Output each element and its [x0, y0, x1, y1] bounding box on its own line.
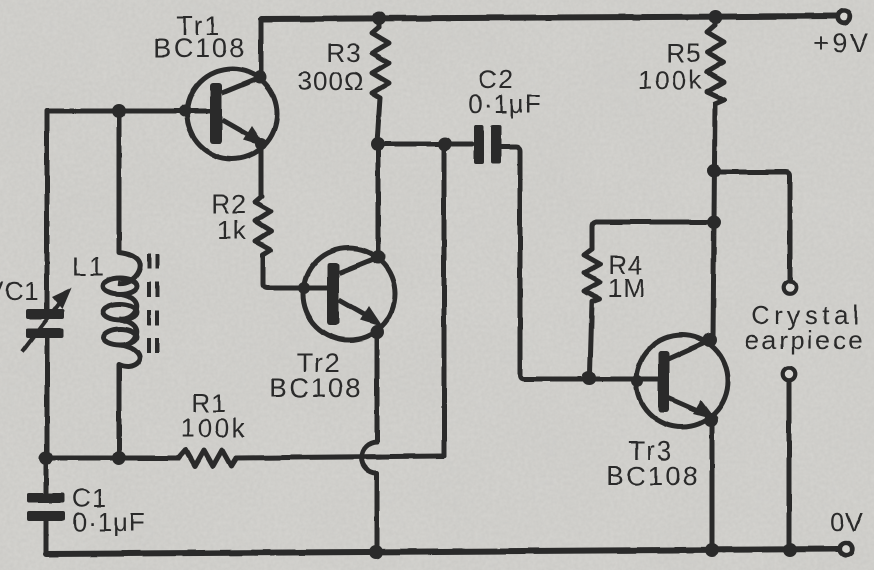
- wire C1 top lead: [44, 458, 49, 493]
- resistor R2: [255, 196, 271, 255]
- wire L1 bottom: [117, 365, 122, 458]
- svg-text:0·1μF: 0·1μF: [72, 507, 145, 537]
- wire C1 bottom lead: [44, 521, 49, 554]
- wire L1 top: [117, 111, 122, 252]
- wire bottom node horizontal left of R1: [46, 456, 179, 461]
- wire Tr3 emitter to 0V: [710, 424, 715, 550]
- terminal earpiece top: [784, 281, 797, 294]
- wire Tr2 collector riser: [376, 144, 381, 257]
- terminal earpiece bottom: [783, 368, 796, 381]
- svg-text:R5: R5: [666, 38, 701, 68]
- terminal +9V: [838, 11, 851, 24]
- wire R4 top branch: [592, 222, 715, 249]
- transistor Tr3: [631, 333, 728, 427]
- node earpiece tap: [707, 164, 721, 178]
- inductor L1: [103, 252, 140, 367]
- node R4 bottom / Tr3 base: [582, 371, 596, 385]
- transistor Tr2: [298, 248, 395, 340]
- svg-text:earpiece: earpiece: [745, 325, 866, 355]
- node top rail R5 junction: [709, 10, 723, 24]
- wire R4 bottom lead: [590, 302, 592, 374]
- wire hop over node wire: [362, 442, 378, 473]
- svg-text:+9V: +9V: [813, 28, 871, 58]
- svg-text:100k: 100k: [638, 65, 704, 95]
- node earpiece 0V: [783, 543, 797, 557]
- transistor Tr1: [179, 69, 277, 159]
- L1 core dashed lines: [149, 254, 157, 358]
- svg-text:BC108: BC108: [153, 33, 247, 63]
- wire Tr1 emitter to R2: [259, 147, 264, 196]
- svg-text:1M: 1M: [608, 273, 646, 303]
- capacitor C2: [474, 125, 501, 164]
- resistor R1: [179, 450, 236, 466]
- resistor R5: [707, 25, 724, 104]
- wire R2 bottom to Tr2 base: [263, 255, 328, 288]
- svg-text:VC1: VC1: [0, 276, 40, 306]
- VC1 arrow: [22, 288, 71, 352]
- node C2 left riser: [438, 137, 452, 151]
- resistor R3: [372, 27, 389, 98]
- wire R1 right to vertical riser: [236, 456, 444, 458]
- wire VC1 bottom to node: [45, 338, 50, 458]
- wire +9V top rail: [261, 16, 838, 19]
- capacitor C1: [27, 493, 65, 521]
- svg-text:BC108: BC108: [269, 373, 363, 403]
- wire Tr1 collector to top rail: [259, 19, 264, 77]
- wire earpiece lower to 0V: [787, 382, 792, 550]
- wire Tr2 emitter lower to 0V: [375, 473, 380, 551]
- wire Tr2 emitter upper: [375, 334, 380, 442]
- resistor R4: [584, 249, 600, 302]
- node Tr3 emitter 0V: [705, 543, 719, 557]
- terminal 0V: [840, 543, 853, 556]
- wire left column VC1 top: [45, 111, 50, 309]
- wire earpiece branch: [714, 172, 790, 279]
- wire 0V bottom rail: [46, 549, 838, 554]
- node Tr1 base junction: [112, 104, 126, 118]
- node VC1 / C1: [39, 451, 53, 465]
- svg-text:0V: 0V: [830, 507, 864, 537]
- node Tr2 emitter 0V: [369, 545, 383, 559]
- wire Tr1 base from left column: [47, 109, 211, 114]
- svg-text:R3: R3: [326, 38, 361, 68]
- node R3 bottom / Tr2 collector: [371, 137, 385, 151]
- svg-text:L1: L1: [72, 252, 106, 282]
- wire R5 bottom to Tr3 collector: [713, 104, 715, 340]
- node L1 bottom: [112, 451, 126, 465]
- wire R3 top lead: [377, 18, 382, 27]
- node top rail R3 junction: [372, 11, 386, 25]
- svg-text:100k: 100k: [181, 413, 247, 443]
- wire R3 bottom lead: [377, 98, 380, 143]
- wire C2 right lead down to Tr3 base: [501, 147, 658, 379]
- svg-text:0·1μF: 0·1μF: [468, 89, 541, 119]
- capacitor VC1: [26, 309, 64, 338]
- svg-text:300Ω: 300Ω: [298, 66, 365, 96]
- wire node R3 bottom to C2 left plate: [375, 142, 472, 147]
- svg-text:1k: 1k: [217, 215, 246, 245]
- wire R5 top lead: [713, 16, 718, 25]
- svg-text:BC108: BC108: [606, 461, 700, 491]
- node R4 tap: [707, 215, 721, 229]
- wire riser to C2 left node: [442, 144, 447, 456]
